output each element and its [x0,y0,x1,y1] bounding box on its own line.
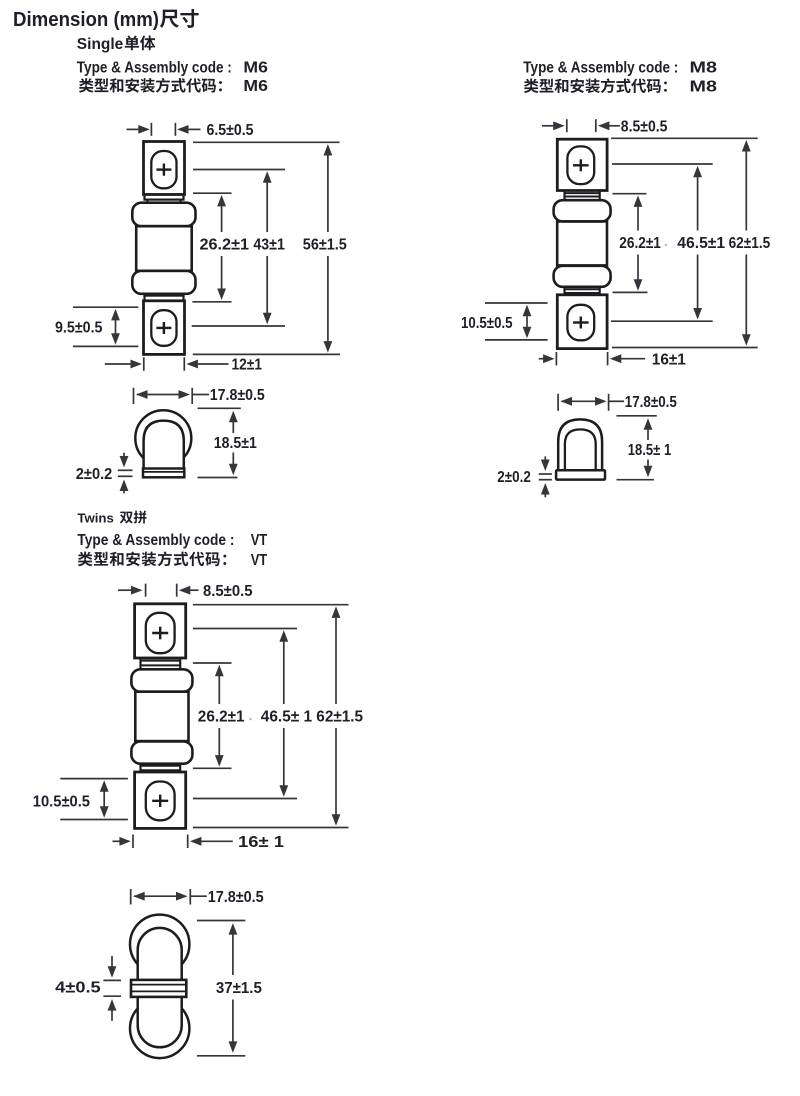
fuse M8 barrel [557,221,607,265]
M6 dim 12 tick right [183,357,185,371]
VT dim 10.5 extension top [60,778,128,780]
svg-text:Twins: Twins [77,510,113,525]
VT extension line bottom (26.2) [193,767,232,769]
fuse M6 top end cap ring [132,203,195,227]
M8 dim 62 arrow up [745,150,747,231]
svg-text:16± 1: 16± 1 [238,834,285,851]
VT dim 26.2 arrow up [218,674,220,704]
VT loop bottom outer circle [130,999,189,1058]
fuse M6 bottom terminal slot oval [151,310,176,346]
M8 dim 8.5 arrow left [607,125,620,127]
VT dim 8.5 arrow right [118,589,133,591]
M6 extension line bottom (26.2) [192,301,231,303]
fuse M6 bottom neck [146,294,148,296]
M8 dim 10.5 extension top [485,302,548,304]
M6 dim 12 arrow left [196,363,229,365]
M6 loop base plate inner line [144,471,184,473]
M6 dim 6.5 tick left [150,123,152,136]
VT dim 16 tick right [187,835,189,849]
M8 loop dim 18.5 extension bottom [617,479,654,481]
M8 dim 46.5 arrow up [697,175,699,230]
svg-text:26.2±1: 26.2±1 [200,237,250,254]
fuse VT bottom neck [139,764,141,772]
VT dim 46.5 arrow down [283,728,285,787]
VT loop dim 37 extension bottom [197,1055,245,1057]
svg-text:17.8±0.5: 17.8±0.5 [208,889,264,906]
M8 dim 46.5 arrow down [697,255,699,311]
svg-text:62±1.5: 62±1.5 [316,709,363,726]
svg-text:10.5±0.5: 10.5±0.5 [461,315,513,332]
fuse VT top terminal slot oval [146,613,175,653]
VT dim 8.5 arrow left [188,589,198,591]
svg-text:16±1: 16±1 [652,351,686,368]
svg-text:46.5± 1: 46.5± 1 [261,709,313,726]
fuse M8 top terminal cross [573,164,589,166]
fuse M8 top end cap ring [554,200,611,221]
fuse M6 bottom end cap ring [132,271,195,294]
VT loop dim 4 arrow down [111,956,113,968]
VT loop dim 37 extension top [197,920,245,922]
svg-text:2±0.2: 2±0.2 [497,469,531,486]
VT dim 10.5 extension bottom [60,819,128,821]
VT loop middle band inner line 2 [132,990,186,992]
svg-text:9.5±0.5: 9.5±0.5 [55,320,103,337]
fuse VT top end cap ring [131,669,192,691]
fuse M8 bottom terminal cross [573,321,589,323]
VT loop middle band inner line 1 [132,984,186,986]
header CJK: 双拼 [120,512,133,524]
fuse M6 top neck [145,194,184,199]
M8 loop outer arch [558,419,602,470]
svg-text:M8: M8 [690,59,718,76]
VT extension line top (26.2) [193,662,232,664]
M8 extension line bottom (62) [612,347,758,349]
fuse M8 top terminal slot oval [567,146,594,184]
header CJK: 类型和安装方式代码 (VT) [78,552,93,567]
fuse M8 bottom neck [563,287,565,295]
svg-text:37±1.5: 37±1.5 [216,980,262,997]
M6 dim 9.5 extension bottom [73,345,138,347]
fuse M8 bottom terminal slot oval [567,305,594,341]
svg-text:M6: M6 [243,59,268,76]
VT extension line bottom (46.5) [193,798,297,800]
VT loop dim 17.8 arrows [134,895,178,897]
VT dim 62 arrow down [335,728,337,816]
svg-text:43±1: 43±1 [253,237,285,254]
svg-text:Type & Assembly code :: Type & Assembly code : [523,59,678,76]
M6 loop dim 17.8 leader [192,394,209,396]
M8 dim 10.5 extension bottom [485,339,548,341]
M8 loop dim 18.5 arrow up [647,428,649,440]
VT extension line bottom (62) [193,827,349,829]
M8 extension line bottom (46.5) [611,320,713,322]
VT extension line top (62) [193,604,349,606]
svg-text:18.5± 1: 18.5± 1 [628,442,672,459]
M6 loop base plate [143,469,184,478]
M6 loop inner arch [144,421,184,469]
M6 extension line bottom (56) [193,353,340,355]
svg-text:M8: M8 [690,79,718,96]
M8 loop dim 18.5 arrow down [647,460,649,468]
M6 dim 56 arrow up [327,154,329,233]
VT loop dim 37 arrow up [232,933,234,975]
M8 dim 16 tick right [607,352,609,365]
fuse VT bottom end cap ring [131,742,192,764]
VT dim 8.5 tick right [176,584,178,597]
VT loop dim 4 arrow up [111,1009,113,1021]
header CJK: 类型和安装方式代码 (M8) [524,79,539,93]
svg-text:12±1: 12±1 [232,357,263,374]
svg-text:18.5±1: 18.5±1 [214,435,257,452]
header CJK: 单体 [125,36,139,51]
M6 extension line top (43) [193,169,285,171]
fuse M6 top terminal slot oval [151,151,176,188]
M6 dim 9.5 extension top [73,306,138,308]
svg-text:8.5±0.5: 8.5±0.5 [621,118,668,135]
VT loop top outer circle [130,915,189,974]
svg-text:17.8±0.5: 17.8±0.5 [210,387,265,404]
M8 loop dim 17.8 leader [609,400,624,402]
VT loop dim 17.8 leader [190,895,207,897]
VT loop dim 4 tick top [103,979,121,981]
svg-text:VT: VT [251,552,268,569]
header CJK: 类型和安装方式代码 (M6) [79,78,94,92]
VT loop dim 37 arrow down [232,1000,234,1044]
title CJK: 尺寸 [160,10,179,28]
M8 loop dim 17.8 tick left [557,394,559,411]
fuse VT bottom terminal cross [152,800,168,802]
M8 extension line top (26.2) [613,193,647,195]
svg-text:6.5±0.5: 6.5±0.5 [207,122,254,139]
svg-text:2±0.2: 2±0.2 [76,466,113,483]
M6 dim 56 arrow down [327,256,329,343]
M6 loop dim 2 tick bottom [118,475,133,477]
fuse M8 top neck [563,191,565,201]
M6 extension line top (56) [193,141,340,143]
M8 dim 16 tick left [555,352,557,365]
M8 dim 10.5 arrows [526,314,528,329]
VT dim 16 tick left [132,835,134,849]
M6 dim 12 tick left [143,357,145,371]
M8 loop dim 18.5 extension top [617,415,657,417]
M8 loop dim 17.8 tick right [608,394,610,411]
M8 dim 26.2 arrow up [637,205,639,231]
svg-text:Dimension (mm): Dimension (mm) [13,9,159,31]
svg-text:8.5±0.5: 8.5±0.5 [203,583,253,600]
fuse M6 top terminal [144,142,185,195]
fuse M8 bottom terminal [557,295,607,349]
M8 loop dim 2 arrow up [544,493,546,498]
svg-text:46.5±1: 46.5±1 [677,235,725,252]
M8 dim 62 arrow down [745,255,747,337]
fuse VT top neck [139,658,141,669]
M6 loop dim 2 arrow down [123,453,125,458]
VT extension line top (46.5) [193,628,297,630]
VT dim 62 arrow up [335,616,337,704]
M6 dim 12 arrow right [105,363,133,365]
M6 dim 26.2 arrow down [221,256,223,291]
M8 extension line bottom (26.2) [613,291,648,293]
svg-text:26.2±1: 26.2±1 [619,235,661,252]
M8 loop dim 2 tick top [539,473,552,475]
M8 loop base plate [556,470,605,479]
M6 dim 43 arrow down [266,256,268,315]
fuse VT top terminal [135,604,186,658]
fuse M6 bottom terminal [144,301,185,355]
svg-text:Type & Assembly code :: Type & Assembly code : [77,532,234,549]
fuse VT top terminal cross [152,632,168,634]
M8 loop dim 2 tick bottom [539,479,552,481]
fuse M6 barrel [136,226,192,271]
M8 dim 8.5 tick left [566,119,568,132]
svg-text:Type & Assembly code :: Type & Assembly code : [77,59,232,76]
M6 extension line bottom (43) [192,325,285,327]
VT dim 16 arrow left [199,840,232,842]
svg-text:62±1.5: 62±1.5 [729,235,771,252]
M6 loop dim 2 arrow up [123,489,125,493]
VT dim 46.5 arrow up [283,640,285,704]
fuse M8 bottom end cap ring [554,266,611,287]
fuse VT bottom terminal slot oval [146,782,175,821]
M6 dim 6.5 arrow left [187,128,201,130]
VT dim 26.2 arrow down [218,728,220,757]
svg-text:4±0.5: 4±0.5 [55,980,101,997]
svg-text:17.8±0.5: 17.8±0.5 [625,394,677,411]
M6 loop dim 18.5 extension top [198,407,241,409]
M6 dim 9.5 arrows [115,318,117,335]
M8 dim 8.5 tick right [595,119,597,132]
VT dim 8.5 tick left [145,584,147,597]
M8 dim 16 arrow right [539,358,545,360]
M6 loop dim 18.5 arrow up [232,420,234,433]
M6 loop dim 18.5 arrow down [232,453,234,466]
M6 loop dim 17.8 arrows [137,394,181,396]
svg-text:26.2±1: 26.2±1 [198,709,245,726]
VT dim 16 arrow right [113,840,122,842]
VT dim 10.5 arrows [103,790,105,809]
fuse M6 bottom terminal cross [156,327,171,329]
M6 loop dim 18.5 extension bottom [198,477,238,479]
svg-text:Single: Single [77,36,124,53]
svg-text:56±1.5: 56±1.5 [303,237,347,254]
fuse VT barrel [135,692,188,741]
M8 extension line top (62) [611,137,758,139]
svg-text:10.5±0.5: 10.5±0.5 [33,794,91,811]
M8 dim 8.5 arrow right [542,125,555,127]
VT loop middle band [131,980,186,997]
VT dim row artifact dot [249,718,252,721]
M6 dim 6.5 tick right [174,123,176,136]
fuse M8 top terminal [557,139,607,190]
M8 dim 26.2 arrow down [637,255,639,282]
M8 extension line top (46.5) [612,163,713,165]
VT loop dim 4 tick bottom [103,995,121,997]
M6 loop dim 17.8 tick left [133,388,135,404]
M6 dim 43 arrow up [266,181,268,232]
VT loop inner capsule [138,928,182,1047]
M6 dim 6.5 arrow right [127,128,141,130]
fuse VT bottom terminal [135,772,186,828]
M8 loop dim 2 arrow down [544,456,546,461]
M6 dim 26.2 arrow up [221,204,223,232]
VT loop dim 17.8 tick left [130,889,132,905]
M8 loop inner arch [565,429,596,470]
VT loop dim 17.8 tick right [189,889,191,905]
svg-text:VT: VT [251,532,268,549]
M6 loop dim 17.8 tick right [191,388,193,404]
M8 dim row artifact dot [665,244,668,247]
M8 loop dim 17.8 arrows [562,400,598,402]
M6 extension line top (26.2) [193,192,232,194]
fuse M6 top terminal cross [156,168,171,170]
M8 dim 16 arrow left [619,358,645,360]
M6 loop dim 2 tick top [118,469,133,471]
svg-text:M6: M6 [243,78,268,95]
M6 loop outer circle [135,410,191,466]
